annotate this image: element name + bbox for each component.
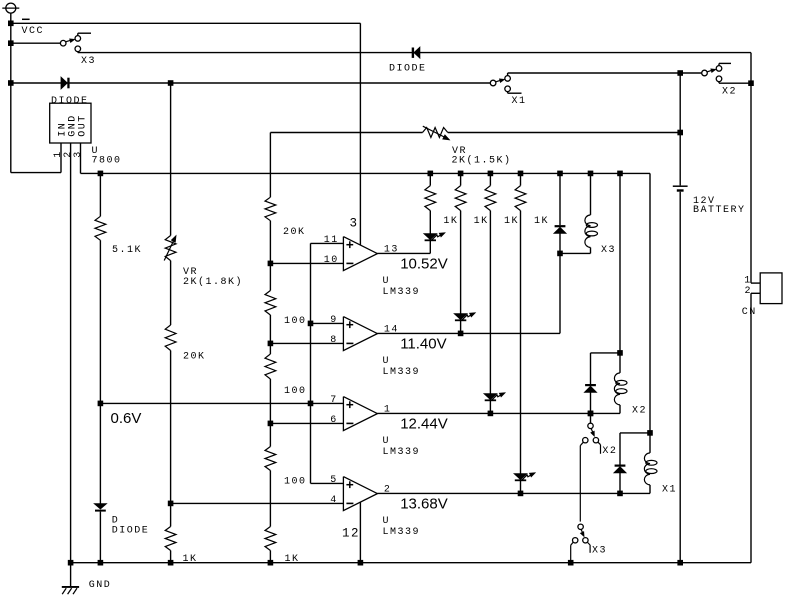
relay coil X1	[620, 433, 657, 494]
label 5.1K	[112, 245, 142, 256]
wire VR chain top	[170, 83, 172, 236]
pin label 14	[384, 325, 399, 336]
node: switch-row junction	[8, 40, 14, 46]
switch X2 (relay contact)	[580, 423, 600, 521]
pin number 2	[63, 150, 74, 158]
label X3 switch	[81, 56, 96, 67]
node: battery VR2 junction	[677, 130, 683, 136]
wire X3 throw to right edge	[78, 52, 751, 54]
pin label 2 CN	[745, 286, 753, 297]
svg-text:X2: X2	[632, 405, 647, 416]
node: X1-X2 wire junction	[677, 70, 683, 76]
label switch X2	[602, 446, 617, 457]
svg-text:GND: GND	[89, 580, 112, 591]
svg-text:5.1K: 5.1K	[112, 245, 142, 256]
pin label 1	[384, 405, 392, 416]
wire LED1 bottom	[429, 241, 431, 253]
pin label 2	[384, 485, 392, 496]
pin label 10	[324, 255, 339, 266]
op-amp U2B LM339	[343, 317, 377, 351]
op-amp U2D LM339	[343, 477, 377, 511]
svg-text:2K(1.5K): 2K(1.5K)	[452, 154, 512, 166]
wire 1K to LED3	[489, 211, 491, 394]
resistor 100c	[265, 447, 276, 471]
node: rail junction 1K-2	[458, 171, 464, 177]
label 12.44V	[400, 415, 448, 432]
label 20K left	[183, 351, 206, 362]
svg-text:CN: CN	[742, 307, 757, 318]
svg-text:3: 3	[350, 216, 359, 230]
node: battery rail junction	[677, 560, 683, 566]
resistor 5.1K	[95, 173, 106, 240]
label 11.40V	[400, 335, 446, 352]
wire 7800 pin3 out	[81, 143, 101, 173]
label DIODE (D1)	[51, 96, 89, 107]
resistor 1K pull-up 4	[515, 173, 526, 210]
node: switch X3 rail junction	[568, 560, 574, 566]
wire pin9 link	[311, 322, 344, 324]
wire tap10 to 100a	[269, 263, 271, 290]
label 1K left	[183, 554, 198, 565]
node: ground junction	[68, 560, 74, 566]
node: 7800 out junction	[98, 171, 104, 177]
wire VCC horizontal	[11, 22, 361, 24]
resistor 100a	[265, 291, 276, 316]
wire tap6 to 100c	[269, 423, 271, 446]
wire 5.1K to 0.6V node	[99, 240, 101, 403]
resistor R 20K (left chain)	[165, 325, 176, 351]
resistor 1K pull-up 2	[455, 173, 466, 210]
wire out1 node to switch X2	[590, 413, 592, 423]
wire 1K to LED1	[429, 211, 431, 234]
svg-text:1K: 1K	[534, 216, 549, 227]
wire 100b to tap6	[269, 379, 271, 423]
svg-text:X3: X3	[592, 545, 607, 556]
resistor VR2 2K(1.5K)	[423, 126, 450, 140]
wire out1 to relay X2	[377, 412, 590, 414]
svg-text:U: U	[383, 516, 391, 527]
wire 100a to tap8	[269, 315, 271, 343]
label VR2	[452, 146, 512, 166]
node: pin4 tap	[168, 501, 174, 507]
svg-text:3: 3	[73, 150, 84, 158]
wire battery top	[679, 73, 681, 185]
wire LED2 bottom	[460, 321, 462, 333]
node: rail junction 1K-1	[428, 171, 434, 177]
wire VR2 row left	[270, 132, 422, 134]
svg-text:X3: X3	[81, 56, 96, 67]
wire 1K divider to rail	[269, 551, 271, 563]
label 1K pull-up 2	[474, 216, 489, 227]
diode D1 input	[61, 78, 69, 89]
node: rail junction coil X3	[588, 171, 594, 177]
node: VR chain rail junction	[168, 560, 174, 566]
flyback diode X2	[585, 353, 596, 414]
label U 7800	[92, 146, 122, 166]
pin label 1 CN	[744, 275, 752, 286]
svg-text:8: 8	[330, 335, 338, 346]
wire 20K to tap	[170, 351, 172, 504]
svg-text:DIODE: DIODE	[112, 526, 150, 537]
label 13.68V	[400, 495, 448, 512]
wire tap to pin 10	[270, 262, 343, 264]
node: LED2 junction	[458, 331, 464, 337]
svg-text:12.44V: 12.44V	[400, 415, 448, 432]
wire flyback D-X3 bottom	[559, 233, 561, 253]
wire left bus vertical	[10, 23, 12, 172]
svg-text:OUT: OUT	[77, 114, 88, 137]
node: 0.6V node	[98, 401, 104, 407]
pin label 8	[330, 335, 338, 346]
pin label 5	[330, 475, 338, 486]
node: rail junction 1K-4	[518, 171, 524, 177]
svg-text:LM339: LM339	[383, 287, 421, 298]
node: X2 coil top junction	[617, 350, 623, 356]
label 1K pull-up 4	[534, 216, 549, 227]
wire out2 to relay X1	[377, 492, 620, 494]
wire 7800 pin1 to diode row	[11, 143, 61, 173]
label DIODE (D2)	[389, 64, 427, 75]
wire out13 to LED1	[377, 252, 430, 254]
node: switch chain top junction	[588, 411, 594, 417]
svg-text:X2: X2	[602, 446, 617, 457]
wire ground rail	[71, 562, 751, 564]
svg-text:11: 11	[324, 235, 339, 246]
wire 0.6V to pin 7	[100, 402, 343, 404]
label 100c	[284, 477, 307, 488]
pin label 12 (GND)	[342, 527, 360, 541]
label 100b	[284, 386, 307, 397]
battery 12V	[673, 186, 688, 192]
label switch X3	[592, 545, 607, 556]
node: tap pin8	[268, 341, 274, 347]
wire VR2 row right	[448, 132, 680, 134]
wire X2 top link	[591, 352, 621, 354]
wire +5V rail	[100, 172, 650, 174]
svg-text:LM339: LM339	[383, 367, 421, 378]
resistor 1K pull-up 1	[425, 173, 436, 210]
resistor 1K (left chain)	[165, 527, 176, 551]
power flag VCC	[2, 3, 19, 23]
diode D	[95, 504, 106, 512]
wire tap to pin 4	[171, 502, 344, 504]
node: VR chain top junction	[168, 80, 174, 86]
wire to X2 switch	[680, 72, 702, 74]
node: rail junction D2 X3	[557, 171, 563, 177]
node: pin9 branch	[308, 321, 314, 327]
node: VCC bus junction	[8, 21, 14, 27]
label GND	[89, 580, 112, 591]
label 100a	[284, 316, 307, 327]
relay coil X2	[591, 353, 628, 414]
wire tap to pin 6	[270, 422, 343, 424]
wire rail corner to X1	[649, 173, 651, 433]
svg-text:7: 7	[330, 395, 338, 406]
svg-text:0.6V: 0.6V	[111, 410, 142, 427]
svg-text:U: U	[383, 436, 391, 447]
wire 7800 pin2 ground	[70, 143, 72, 563]
wire 1K to LED4	[520, 211, 522, 474]
pin label 6	[330, 415, 338, 426]
node: rail junction X2 feed	[617, 171, 623, 177]
wire 1K to LED2	[460, 211, 462, 314]
label 1K pull-up 3	[504, 216, 519, 227]
svg-text:11.40V: 11.40V	[400, 335, 446, 352]
wire LED3 bottom	[489, 401, 491, 413]
wire X1 to X2 switch	[508, 72, 681, 74]
LED2	[455, 313, 475, 321]
label U LM339 (2)	[383, 356, 421, 378]
svg-text:20K: 20K	[283, 227, 306, 238]
svg-text:1K: 1K	[285, 554, 300, 565]
svg-text:1K: 1K	[183, 554, 198, 565]
node: pin7 branch	[308, 401, 314, 407]
svg-text:U: U	[383, 356, 391, 367]
node: LED3 junction	[488, 411, 494, 417]
label 20K divider	[283, 227, 306, 238]
wire pin11 link	[311, 242, 344, 244]
wire 20K to tap10	[269, 221, 271, 264]
node: X1 coil top junction	[647, 430, 653, 436]
wire X1 top link	[620, 432, 650, 434]
op-amp U2C LM339	[343, 397, 377, 431]
svg-text:1: 1	[744, 275, 752, 286]
svg-text:10.52V: 10.52V	[400, 255, 448, 272]
svg-text:BATTERY: BATTERY	[693, 205, 746, 216]
resistor 1K (divider)	[265, 527, 276, 551]
wire feedback bus	[310, 243, 312, 483]
label relay X3	[601, 245, 616, 256]
wire tap to 1K	[170, 503, 172, 526]
pin name IN	[57, 122, 68, 137]
label 0.6V	[111, 410, 142, 427]
svg-text:1K: 1K	[504, 216, 519, 227]
svg-text:1K: 1K	[443, 216, 458, 227]
svg-text:5: 5	[330, 475, 338, 486]
svg-text:U: U	[383, 276, 391, 287]
svg-text:2: 2	[745, 286, 753, 297]
label 1K pull-up 1	[443, 216, 458, 227]
label D DIODE	[112, 516, 150, 537]
svg-text:10: 10	[324, 255, 339, 266]
node: LED4 junction	[518, 491, 524, 497]
pin label 7	[330, 395, 338, 406]
svg-text:4: 4	[330, 495, 338, 506]
svg-text:100: 100	[284, 386, 307, 397]
wire pin5 link	[311, 482, 344, 484]
wire tap to pin 8	[270, 342, 343, 344]
svg-text:7800: 7800	[92, 155, 122, 166]
node: X2 coil bottom junction	[588, 411, 594, 417]
switch X1 (relay contact top)	[490, 73, 521, 93]
switch X3 (power on/off)	[60, 33, 91, 52]
op-amp U2A LM339	[343, 237, 377, 271]
svg-text:X3: X3	[601, 245, 616, 256]
wire LED4 bottom	[520, 481, 522, 493]
svg-text:13.68V: 13.68V	[400, 495, 448, 512]
resistor 20K (divider)	[265, 197, 276, 221]
wire battery to ground rail	[679, 192, 681, 563]
label relay X2	[632, 405, 647, 416]
node: tap pin6	[268, 421, 274, 427]
label 1K divider	[285, 554, 300, 565]
ground symbol	[62, 563, 79, 595]
relay coil X3	[560, 173, 598, 253]
wire 0.6V node to diode D	[99, 403, 101, 504]
svg-text:X2: X2	[722, 86, 737, 97]
wire 100c to 1K	[269, 471, 271, 527]
node: 5.1K rail junction	[98, 560, 104, 566]
wire CN pin1	[751, 282, 760, 284]
node: pin12 rail junction	[358, 560, 364, 566]
node: X1 coil bottom junction	[617, 491, 623, 497]
wire out14 to relay X3	[377, 253, 560, 333]
pin label 9	[330, 315, 338, 326]
label switch X2 top	[722, 86, 737, 97]
pin name OUT	[77, 114, 88, 137]
label relay X1	[662, 485, 677, 496]
node: rail junction 1K-3	[488, 171, 494, 177]
svg-text:6: 6	[330, 415, 338, 426]
diode D2	[412, 48, 420, 58]
wire pin12 ground	[359, 502, 361, 563]
svg-text:2K(1.8K): 2K(1.8K)	[183, 276, 243, 288]
pin label 13	[384, 245, 399, 256]
node: X3 coil bottom junction	[557, 251, 563, 257]
node: tap pin10	[268, 261, 274, 267]
resistor 1K pull-up 3	[485, 173, 496, 210]
regulator U1 7800 body	[50, 103, 91, 143]
flyback diode X3	[555, 225, 566, 233]
resistor 100b	[265, 354, 276, 379]
wire to switch X3	[11, 42, 61, 44]
net label -VCC	[22, 19, 45, 37]
svg-text:X1: X1	[512, 96, 527, 107]
wire diode D to ground rail	[99, 512, 101, 563]
pin label 11	[324, 235, 339, 246]
LED1	[425, 233, 445, 241]
wire rail to relay X2	[619, 173, 621, 353]
svg-text:20K: 20K	[183, 351, 206, 362]
wire 1K to ground rail	[170, 551, 172, 563]
svg-text:LM339: LM339	[383, 447, 421, 458]
pin label 3 (V+)	[350, 216, 359, 230]
pin name GND	[67, 114, 78, 137]
label 12V BATTERY	[693, 196, 746, 216]
svg-text:VCC: VCC	[22, 26, 45, 37]
wire VR1 to 20K	[170, 261, 172, 325]
svg-text:DIODE: DIODE	[51, 96, 89, 107]
wire pin3 power	[359, 23, 361, 245]
wire rail to flyback D-X3	[559, 173, 561, 225]
label U LM339 (3)	[383, 436, 421, 458]
connector CN body	[760, 273, 782, 304]
svg-text:DIODE: DIODE	[389, 64, 427, 75]
pin label 4	[330, 495, 338, 506]
label CN	[742, 307, 757, 318]
pin number 1	[53, 150, 64, 158]
svg-text:9: 9	[330, 315, 338, 326]
wire diode row	[11, 82, 491, 84]
flyback diode X1	[615, 433, 626, 494]
wire tap8 to 100b	[269, 343, 271, 354]
label VR1	[183, 267, 243, 288]
label U LM339 (4)	[383, 516, 421, 538]
node: right edge junction	[748, 80, 754, 86]
label 10.52V	[400, 255, 448, 272]
svg-text:X1: X1	[662, 485, 677, 496]
pin number 3	[73, 150, 84, 158]
wire right edge down	[750, 53, 752, 284]
node: divider rail junction	[268, 560, 274, 566]
switch X3 (relay contact)	[571, 524, 590, 563]
resistor VR1 2K(1.8K)	[164, 236, 176, 261]
node: diode-row left junction	[8, 80, 14, 86]
wire divider top from VR2 row	[269, 133, 271, 198]
LED3	[485, 393, 505, 401]
switch X2 (relay contact top)	[702, 63, 751, 83]
svg-text:100: 100	[284, 477, 307, 488]
wire CN pin2	[751, 293, 760, 562]
svg-text:12: 12	[342, 527, 360, 541]
label switch X1	[512, 96, 527, 107]
label U LM339 (1)	[383, 276, 421, 298]
LED4	[515, 473, 535, 481]
svg-text:100: 100	[284, 316, 307, 327]
svg-text:1K: 1K	[474, 216, 489, 227]
svg-text:LM339: LM339	[383, 527, 421, 538]
